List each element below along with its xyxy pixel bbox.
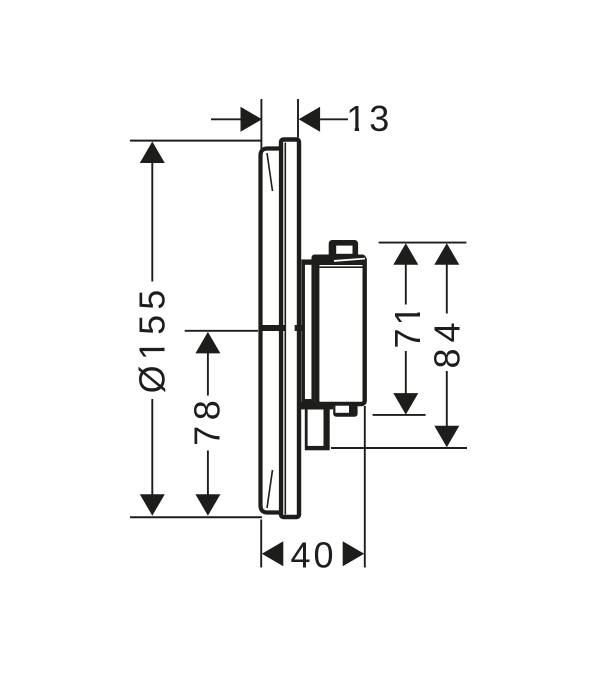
- svg-text:40: 40: [290, 534, 336, 575]
- svg-text:78: 78: [186, 395, 227, 446]
- svg-text:Ø155: Ø155: [131, 284, 172, 393]
- svg-text:71: 71: [387, 302, 428, 348]
- svg-text:13: 13: [346, 98, 392, 139]
- svg-text:84: 84: [426, 317, 467, 369]
